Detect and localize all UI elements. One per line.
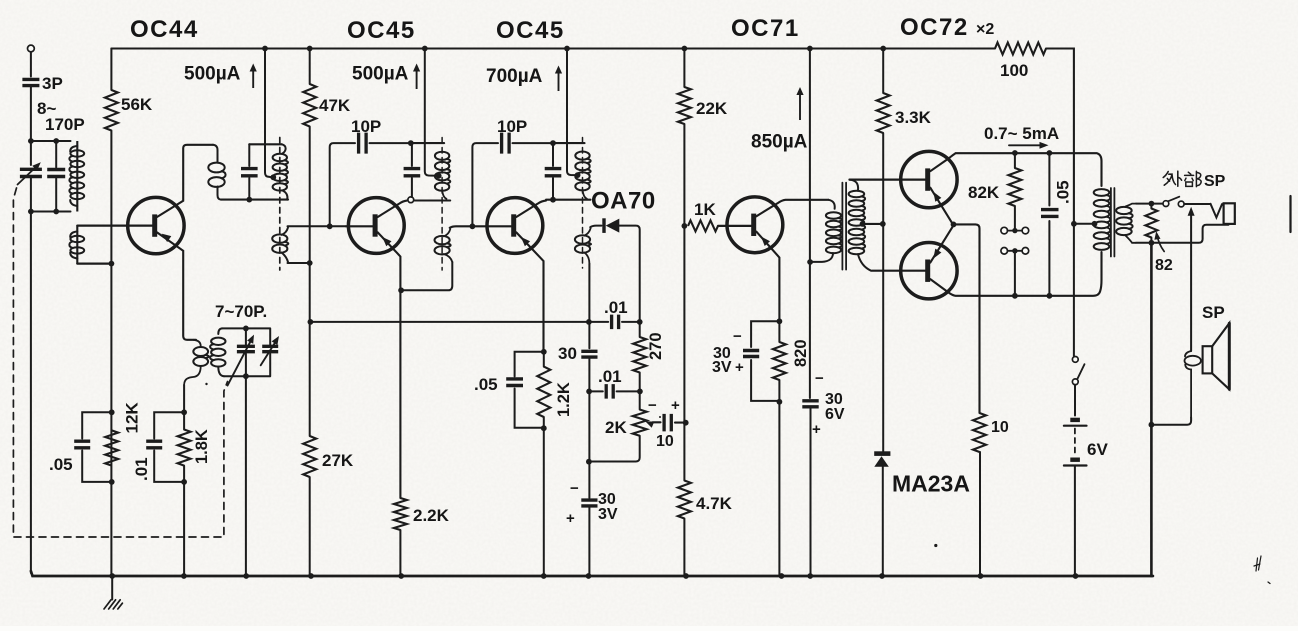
node xyxy=(246,197,252,203)
node on bottom rail xyxy=(1073,573,1079,579)
svg-text:3.3K: 3.3K xyxy=(895,108,932,127)
node xyxy=(586,459,592,465)
svg-text:OA70: OA70 xyxy=(591,188,656,215)
wire: top rail right end to right column xyxy=(1046,49,1074,224)
svg-text:27K: 27K xyxy=(322,451,354,470)
node on top rail xyxy=(564,46,570,52)
node on top rail xyxy=(262,46,268,52)
wire: OC45#2 emitter xyxy=(516,232,543,351)
wire: tank top xyxy=(222,327,270,329)
capacitor .05 (emitter bypass) xyxy=(82,412,112,482)
node xyxy=(307,260,313,266)
inductor: OC44 collector coupling coil xyxy=(213,145,218,162)
emitter arrow Q3 xyxy=(521,237,530,246)
wire: B- top supply rail xyxy=(111,47,995,49)
svg-text:OC44: OC44 xyxy=(130,16,199,43)
transistor Q2 OC45 xyxy=(348,198,404,254)
svg-text:500µA: 500µA xyxy=(352,64,409,85)
wire: detector column 2 xyxy=(588,358,590,499)
wire: B- to T2 tap xyxy=(1074,223,1095,225)
svg-text:+: + xyxy=(671,397,680,414)
capacitor 30 (IF bypass) xyxy=(581,351,597,357)
node on bottom rail xyxy=(807,573,813,579)
wire: right main column xyxy=(1150,243,1153,576)
wire: detector column xyxy=(588,264,590,348)
svg-text:OC45: OC45 xyxy=(347,17,416,44)
wire: AGC column xyxy=(309,127,311,437)
wire: IFT1 top line xyxy=(249,143,281,145)
wire: speaker return xyxy=(1151,418,1191,425)
svg-text:1.8K: 1.8K xyxy=(193,429,211,464)
wire: 820 connections xyxy=(778,321,780,576)
antenna terminal xyxy=(28,45,35,52)
wire: to plug tip xyxy=(1184,203,1210,205)
wire: IFT3 top line into coil xyxy=(553,142,585,144)
node: base/10P junction xyxy=(470,223,476,229)
diode D2 MA23A (bias stabilizer) xyxy=(874,451,890,456)
svg-text:×2: ×2 xyxy=(976,21,994,38)
wire: T1 sec bottom to Q6 base xyxy=(872,270,925,272)
current arrow xyxy=(558,72,560,92)
wire: junction row 2 xyxy=(31,211,71,213)
wire: 2K bottom return xyxy=(589,436,640,462)
wire: battery to rail xyxy=(1074,466,1076,577)
speaker SP (frame) xyxy=(1203,346,1213,373)
wire: OC44 collector xyxy=(157,145,213,217)
node xyxy=(181,409,187,415)
wire: IFT3 B- feed xyxy=(567,49,575,176)
node xyxy=(109,409,115,415)
node on bottom rail xyxy=(541,573,547,579)
jack contacts (earphone) xyxy=(1001,227,1008,234)
capacitor .01 (coupling 1) xyxy=(589,321,608,323)
wire: speaker hot with jack arrow xyxy=(1190,214,1192,352)
svg-text:−: − xyxy=(570,480,579,497)
resistor 100 (in top rail) xyxy=(995,43,1046,55)
svg-text:820: 820 xyxy=(792,339,810,367)
wire: OC45#1 emitter xyxy=(378,232,401,498)
node xyxy=(1071,221,1077,227)
inductor L1 antenna coil primary xyxy=(76,141,78,212)
rheostat 82 (voice coil matching) xyxy=(1150,204,1152,209)
wire: OC45#2 collector xyxy=(516,201,546,217)
svg-text:.05: .05 xyxy=(1054,180,1073,204)
svg-text:3V: 3V xyxy=(712,359,732,376)
capacitor IFT2 tuning xyxy=(411,143,413,197)
node on top rail xyxy=(307,46,313,52)
node xyxy=(1047,150,1053,156)
node xyxy=(243,326,249,332)
svg-text:4.7K: 4.7K xyxy=(696,494,733,513)
wire: emitters to 10 ohm xyxy=(954,224,980,413)
node xyxy=(586,319,592,325)
plug body xyxy=(1224,203,1235,224)
node xyxy=(53,138,59,144)
node xyxy=(777,318,783,324)
resistor 12K xyxy=(105,430,118,465)
inductor IFT2 primary xyxy=(435,152,449,160)
wire: OC45 base lead xyxy=(346,225,373,227)
node on bottom rail xyxy=(109,573,115,579)
node xyxy=(1012,293,1018,299)
scan streak xyxy=(1289,196,1291,232)
wire: 27K to rail xyxy=(309,477,311,576)
wire: tank bottom xyxy=(224,375,270,377)
wire: base bias column xyxy=(683,124,685,481)
svg-text:SP: SP xyxy=(1202,303,1225,322)
emitter arrow Q2 xyxy=(382,237,391,246)
wire: IFT2 bottom line xyxy=(407,199,450,201)
wire: T2 sec bottom xyxy=(1136,242,1149,244)
switch (ext SP jack contact) xyxy=(1163,201,1169,207)
capacitor .05 (tone) xyxy=(1048,153,1050,296)
node: IFT2 primary tap xyxy=(436,173,442,179)
node xyxy=(28,138,34,144)
svg-text:3P: 3P xyxy=(42,74,63,93)
node on top rail xyxy=(880,46,886,52)
wire: OC71 emitter xyxy=(756,232,779,322)
svg-text:+: + xyxy=(735,359,744,376)
svg-text:0.7~ 5mA: 0.7~ 5mA xyxy=(984,124,1059,143)
IFT2 core axis (dashed) xyxy=(441,138,443,271)
node xyxy=(777,399,783,405)
node: IFT1 primary tap xyxy=(270,174,276,180)
wire: Q6 collector xyxy=(930,252,1101,296)
svg-text:10: 10 xyxy=(656,433,674,450)
svg-text:OC71: OC71 xyxy=(731,15,800,42)
svg-text:1.2K: 1.2K xyxy=(555,382,573,417)
resistor 1K (base) xyxy=(688,220,718,231)
svg-text:SP: SP xyxy=(1204,173,1226,190)
svg-text:3V: 3V xyxy=(598,506,618,523)
node xyxy=(586,389,592,395)
node: T1 secondary center tap xyxy=(860,221,866,227)
node xyxy=(683,420,689,426)
adjust arrow xyxy=(1157,235,1164,252)
node xyxy=(541,349,547,355)
inductor osc feedback winding xyxy=(194,340,201,346)
variable capacitor 8~170P (tuning gang) xyxy=(20,169,42,176)
svg-text:12K: 12K xyxy=(123,402,142,434)
svg-text:MA23A: MA23A xyxy=(892,471,970,497)
capacitor IFT1 tuning xyxy=(248,144,250,199)
svg-text:6V: 6V xyxy=(825,406,845,423)
wire: IFT2 secondary bottom to Q2 emitter xyxy=(401,262,452,290)
svg-text:100: 100 xyxy=(1000,61,1028,80)
inductor IFT3 secondary xyxy=(575,235,590,243)
node on bottom rail xyxy=(879,573,885,579)
node on top rail xyxy=(807,46,813,52)
capacitor .05 (IF filter) xyxy=(515,352,544,428)
wire: switch to battery xyxy=(1074,385,1076,416)
wire: 270 to 2K xyxy=(639,373,641,410)
node xyxy=(243,373,249,379)
node: T2 primary tap xyxy=(1092,221,1098,227)
switch (power) xyxy=(1072,357,1078,363)
wire: 3.3K feed xyxy=(882,49,884,94)
svg-text:270: 270 xyxy=(647,332,665,360)
wire: OC71 collector xyxy=(756,200,828,217)
resistor 22K xyxy=(678,87,691,124)
node xyxy=(28,209,34,215)
resistor 47K xyxy=(303,84,316,127)
transistor Q5 OC72 xyxy=(901,151,957,207)
resistor 56K xyxy=(105,90,118,131)
capacitor 30 6V (main filter electrolytic) xyxy=(802,401,818,407)
capacitor 10P (neutralizing) xyxy=(330,143,355,226)
node xyxy=(308,319,314,325)
svg-text:10: 10 xyxy=(991,419,1009,436)
plug tip (V) xyxy=(1211,204,1223,218)
emitter arrow Q6 xyxy=(933,249,941,259)
node xyxy=(637,319,643,325)
current arrow xyxy=(416,70,418,90)
svg-text:2.2K: 2.2K xyxy=(413,506,450,525)
wire: IFT1 secondary top to OC45 base xyxy=(288,225,347,227)
battery 6V cell 2 xyxy=(1070,458,1080,462)
emitter arrow Q4 xyxy=(761,237,770,247)
svg-text:−: − xyxy=(815,370,824,387)
resistor 82K (feedback) xyxy=(1014,153,1016,168)
wire: IFT2 secondary top to OC45#2 base xyxy=(450,226,511,228)
wire: battery column xyxy=(1073,224,1075,356)
svg-text:500µA: 500µA xyxy=(184,64,241,85)
svg-text:−: − xyxy=(648,397,657,414)
node xyxy=(408,140,414,146)
gang coupling (dashed) xyxy=(13,188,227,537)
inductor IFT3 primary xyxy=(575,152,589,160)
ground xyxy=(111,576,113,600)
svg-text:OC45: OC45 xyxy=(496,17,565,44)
wire: antenna lead down xyxy=(30,86,32,165)
capacitor .01 (coupling 2) xyxy=(589,390,603,392)
inductor T1 secondary (driver) xyxy=(849,191,865,197)
node on bottom rail xyxy=(978,573,984,579)
wire: Q5 collector xyxy=(930,153,1101,186)
node xyxy=(682,223,688,229)
svg-text:56K: 56K xyxy=(121,95,153,114)
wire: center tap to bias xyxy=(863,223,883,225)
svg-text:6V: 6V xyxy=(1087,440,1108,459)
svg-text:2K: 2K xyxy=(605,418,627,437)
wire: 56K feed from rail xyxy=(110,49,112,91)
T2 core xyxy=(1111,188,1115,257)
wire: IFT2 top line into coil xyxy=(411,142,444,144)
svg-text:.01: .01 xyxy=(604,298,628,317)
resistor 2.2K xyxy=(394,498,407,530)
svg-text:+: + xyxy=(566,510,575,527)
capacitor 10P (neutralizing #2) xyxy=(472,143,498,226)
node xyxy=(109,479,115,485)
wire: IFT1 bottom line xyxy=(221,199,288,201)
svg-text:.01: .01 xyxy=(598,367,622,386)
inductor IFT1 primary xyxy=(282,144,286,153)
wire: filter cap to rail xyxy=(810,407,812,576)
node xyxy=(550,140,556,146)
svg-text:OC72: OC72 xyxy=(900,14,969,41)
node xyxy=(1149,240,1155,246)
resistor 4.7K xyxy=(678,481,691,519)
diode D1 OA70 xyxy=(602,218,605,233)
wire: antenna column below tuning cap xyxy=(30,177,32,573)
svg-text:10P: 10P xyxy=(497,117,527,136)
transistor Q1 OC44 xyxy=(128,197,184,253)
inductor T2 primary (output) xyxy=(1094,189,1110,196)
wire: bias column to MA23A xyxy=(882,133,884,452)
scan speckles xyxy=(934,544,937,547)
svg-text:−: − xyxy=(733,328,742,345)
emitter arrow Q1 xyxy=(162,234,172,242)
node: emitter junction xyxy=(951,222,957,228)
node on top rail xyxy=(422,46,428,52)
svg-text:22K: 22K xyxy=(696,99,728,118)
IFT1 core axis (dashed) xyxy=(279,138,281,271)
svg-text:170P: 170P xyxy=(45,115,85,134)
wire: IFT3 secondary top to detector xyxy=(590,226,601,228)
capacitor IFT3 tuning xyxy=(552,143,554,197)
wire: tank to bottom rail xyxy=(245,376,247,576)
wire: ground/B+ bottom rail xyxy=(31,571,1153,576)
node on bottom rail xyxy=(398,573,404,579)
wire: IFT1 secondary bottom return xyxy=(288,262,310,264)
svg-text:30: 30 xyxy=(558,344,577,363)
svg-text:47K: 47K xyxy=(319,96,351,115)
wire: Q5 emitter xyxy=(930,188,953,226)
resistor 1.2K xyxy=(537,367,550,417)
speaker SP (voice coil) xyxy=(1185,356,1201,366)
inductor T2 secondary xyxy=(1116,207,1132,214)
wire: 22K feed xyxy=(683,49,685,88)
wire: junction row 1 xyxy=(31,140,71,142)
wire: winding return xyxy=(77,263,111,265)
svg-text:82K: 82K xyxy=(968,183,1000,202)
wire: plug sleeve xyxy=(1151,225,1228,243)
svg-text:.05: .05 xyxy=(49,455,73,474)
wiper arrow + capacitor 10 (AF coupling) xyxy=(645,421,654,427)
capacitor (antenna trimmer, fixed) xyxy=(55,141,57,212)
transistor Q3 OC45 xyxy=(487,198,543,254)
resistor 10 (emitter) xyxy=(973,413,986,452)
inductor IFT1 secondary xyxy=(272,234,287,242)
node on bottom rail xyxy=(308,573,314,579)
svg-text:+: + xyxy=(812,421,821,438)
svg-text:82: 82 xyxy=(1155,257,1173,274)
node on bottom rail xyxy=(243,573,249,579)
node on bottom rail xyxy=(181,573,187,579)
transistor Q6 OC72 xyxy=(901,243,957,299)
node on bottom rail xyxy=(683,573,689,579)
wire: IFT2 B- feed xyxy=(425,49,437,176)
svg-text:10P: 10P xyxy=(351,117,381,136)
wire: OC45#1 collector xyxy=(378,201,407,217)
capacitor 3P xyxy=(22,79,39,85)
label 外部 (gaibu) xyxy=(1163,172,1175,186)
node xyxy=(880,221,886,227)
node xyxy=(1149,422,1155,428)
node: IFT3 primary tap xyxy=(575,172,581,178)
node xyxy=(398,287,404,293)
capacitor 30 3V (emitter bypass electrolytic) xyxy=(581,500,597,506)
capacitor .01 xyxy=(154,412,184,482)
wire: T1 sec top to Q5 base xyxy=(850,179,926,181)
svg-text:.01: .01 xyxy=(132,457,151,481)
wire: 10 ohm to rail xyxy=(979,452,981,576)
svg-text:.05: .05 xyxy=(474,375,498,394)
node on top rail xyxy=(682,46,688,52)
svg-text:700µA: 700µA xyxy=(486,66,543,87)
IFT3 core axis (dashed) xyxy=(582,138,584,269)
resistor 270 xyxy=(633,337,646,373)
wire: to bottom rail xyxy=(543,428,545,576)
battery 6V cell 1 xyxy=(1070,418,1080,422)
inductor L1 antenna coil secondary (base winding) xyxy=(76,226,78,264)
node xyxy=(807,259,813,265)
transistor Q4 OC71 xyxy=(727,197,783,253)
svg-text:1K: 1K xyxy=(694,200,716,219)
capacitor 30 3V (OC71 emitter bypass) xyxy=(751,321,779,401)
battery dashed middle xyxy=(1074,429,1076,457)
wire: OC44 emitter xyxy=(157,232,196,339)
wire: Q6 emitter xyxy=(930,225,953,262)
current arrow (horizontal) xyxy=(1009,144,1041,146)
wire: detector output xyxy=(619,226,639,337)
node xyxy=(1047,293,1053,299)
node on bottom rail xyxy=(779,573,785,579)
wire: IFT3 bottom line xyxy=(546,199,591,201)
current arrow xyxy=(799,93,801,120)
node xyxy=(550,197,556,203)
node xyxy=(637,389,643,395)
inductor T1 primary (driver) xyxy=(829,200,835,209)
T1 core xyxy=(842,183,846,270)
wire: IFT1 B- feed xyxy=(265,49,271,178)
node xyxy=(53,209,59,215)
wire: 4.7K to rail xyxy=(683,519,685,577)
wire: B- feed to driver transformer xyxy=(809,49,811,399)
wire: 47K feed xyxy=(309,49,311,85)
open junction (IFT2 cap bottom) xyxy=(408,197,414,203)
node xyxy=(1012,150,1018,156)
wire: 56K bottom / bias line xyxy=(110,131,112,577)
node xyxy=(181,479,187,485)
node: base/10P junction xyxy=(327,223,333,229)
wire: T2 sec top xyxy=(1136,203,1149,205)
inductor IFT2 secondary xyxy=(435,236,450,244)
node xyxy=(541,425,547,431)
trimmer capacitor 7~70P (osc section) xyxy=(245,328,247,376)
svg-text:850µA: 850µA xyxy=(751,132,808,153)
svg-text:7~70P.: 7~70P. xyxy=(215,302,267,321)
inductor osc tank winding xyxy=(218,328,222,334)
wire: base lead to OC44 xyxy=(77,225,152,227)
node xyxy=(109,261,115,267)
wire: AGC line xyxy=(310,321,589,323)
emitter arrow Q5 xyxy=(933,192,941,202)
trimmer capacitor (osc padder) xyxy=(269,328,271,376)
resistor 1.8K xyxy=(178,430,191,466)
resistor 820 (emitter) xyxy=(773,342,786,380)
wire: to bottom rail xyxy=(588,507,590,577)
wire: jack top lead xyxy=(1151,203,1162,205)
node xyxy=(1149,201,1155,207)
current arrow xyxy=(252,70,254,89)
potentiometer 2K (volume) xyxy=(633,410,647,436)
resistor 27K xyxy=(303,436,316,477)
resistor 3.3K xyxy=(877,93,890,133)
node on bottom rail xyxy=(586,573,592,579)
